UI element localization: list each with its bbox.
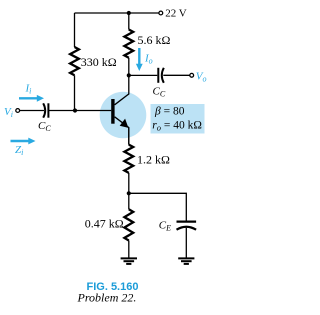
- svg-text:5.6 kΩ: 5.6 kΩ: [138, 33, 171, 47]
- terminal Vi: [16, 109, 20, 113]
- svg-text:β = 80: β = 80: [154, 106, 185, 118]
- emitter arrowhead: [120, 119, 129, 128]
- wire Vi to input cap: [20, 110, 44, 112]
- transistor Q1 (shaded circle): [100, 92, 147, 139]
- wire output cap to Vo terminal: [163, 74, 190, 76]
- ground (0.47k leg): [121, 258, 137, 264]
- wire 0.47k to ground: [128, 241, 130, 258]
- wire 1.2k bottom to emitter node: [128, 173, 130, 193]
- wire emitter node to CE branch: [129, 193, 187, 221]
- current arrow Ii: [19, 95, 44, 102]
- base bar of transistor: [111, 99, 114, 124]
- resistor 330 kΩ: [70, 47, 79, 75]
- current arrow Io: [136, 48, 143, 71]
- capacitor CC (input): [43, 103, 48, 117]
- resistor 1.2 kΩ: [124, 145, 133, 173]
- wire CE to ground: [185, 228, 187, 258]
- emitter lead of transistor: [115, 117, 129, 145]
- collector lead into transistor: [115, 75, 129, 104]
- wire input cap to base: [48, 110, 111, 112]
- node emitter junction: [127, 191, 131, 195]
- capacitor CC (output): [158, 68, 164, 83]
- annotation box beta/ro: [151, 104, 205, 134]
- svg-text:Problem 22.: Problem 22.: [77, 290, 137, 304]
- impedance arrow Zi: [11, 138, 36, 145]
- terminal Vo: [190, 73, 194, 77]
- wire emitter node to 0.47k: [128, 193, 130, 209]
- wire 5.6k top lead: [128, 13, 130, 30]
- svg-text:1.2 kΩ: 1.2 kΩ: [137, 153, 170, 167]
- node supply/5.6k junction: [127, 11, 131, 15]
- wire 330k top lead: [74, 13, 76, 47]
- svg-text:0.47 kΩ: 0.47 kΩ: [85, 217, 124, 231]
- node base/330k junction: [73, 108, 77, 112]
- resistor 5.6 kΩ: [124, 30, 133, 58]
- terminal 22 V: [159, 11, 163, 15]
- svg-text:330 kΩ: 330 kΩ: [81, 55, 117, 69]
- wire emitter to 1.2k: [128, 128, 130, 145]
- node collector: [127, 73, 131, 77]
- wire 330k bottom lead to base node: [74, 75, 76, 110]
- ground (CE leg): [178, 258, 194, 264]
- capacitor CE: [177, 222, 197, 230]
- wire collector node to output cap: [129, 74, 158, 76]
- wire 5.6k bottom lead to collector node: [128, 58, 130, 76]
- resistor 0.47 kΩ: [124, 209, 133, 240]
- wire top supply rail: [75, 12, 159, 14]
- svg-text:22 V: 22 V: [165, 7, 187, 19]
